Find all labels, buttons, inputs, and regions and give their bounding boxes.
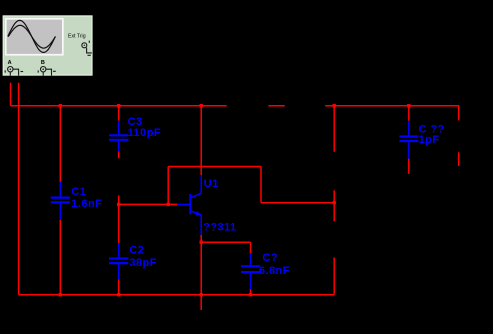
svg-text:110pF: 110pF [128,127,161,139]
svg-text:C3: C3 [128,116,143,128]
wire C1 branch lower [59,220,61,295]
node bottom rail / C2 [117,293,120,296]
wire C?? top stub [408,106,410,121]
wire bottom rail [19,294,335,296]
node top rail / collector feed [200,104,203,107]
wire emitter down with ground stub [200,235,202,310]
wire top rail segment 3 with right corner [325,106,459,121]
wire C2 bottom lead [118,279,120,294]
transistor U1 ??311 NPN [177,175,201,235]
svg-text:1pF: 1pF [419,134,440,146]
wire C1 branch upper [59,106,61,182]
wire C? top lead [250,242,252,253]
oscilloscope instrument XSC1 icon panel [3,16,92,75]
wire scope A- down to bottom rail [18,83,20,295]
capacitor C2 [109,243,128,279]
Ext Trig terminal [82,41,92,56]
connector A terminal [5,67,23,76]
wire collector feed from top rail [200,106,202,176]
wire right leg of box [260,167,262,203]
connector B terminal [38,67,56,76]
node bottom rail / C1 [59,293,62,296]
wire mid branch to C2 [118,195,120,243]
node top rail / C3 [117,104,120,107]
node bottom rail / C? [249,293,252,296]
capacitor C3 [109,121,128,151]
svg-text:6.8nF: 6.8nF [259,265,290,277]
node base / left leg [167,203,170,206]
svg-text:38pF: 38pF [129,257,156,269]
oscilloscope screen bezel [5,18,64,56]
wire base horizontal [119,203,178,205]
wire right riser segment c to bottom rail [333,257,335,294]
oscilloscope trace B (small sine) [8,25,55,48]
wire mid rail [168,166,261,168]
svg-text:A: A [8,60,12,66]
wire emitter to C? branch [201,241,250,243]
wire C3 top lead stub [118,106,120,121]
svg-text:B: B [41,60,45,66]
wire top rail segment 1 [11,105,227,107]
svg-text:1.6nF: 1.6nF [71,198,102,210]
wire C? bottom lead [250,289,252,295]
svg-text:C2: C2 [129,245,144,257]
node emitter / C? branch [200,241,203,244]
capacitor C?? [399,121,418,159]
svg-text:Ext Trig: Ext Trig [68,34,86,40]
wire top rail stub segment 2 [268,105,284,107]
svg-text:U1: U1 [204,178,219,190]
oscilloscope trace A (large sine) [8,20,56,52]
wire staircase horizontal [261,202,334,204]
node base / C2-C3 branch [117,203,120,206]
svg-text:??311: ??311 [203,221,236,233]
node top rail / right riser [333,104,336,107]
capacitor C1 [51,182,70,220]
capacitor C? [241,253,260,289]
node staircase / right riser [333,201,336,204]
wire C?? bottom stub [408,159,410,174]
wire right branch lower stub [458,152,460,166]
wire C3 bottom stub [118,151,120,158]
wire right riser segment b [333,190,335,221]
svg-text:C1: C1 [71,186,86,198]
wire left leg down to base [167,167,169,205]
node top rail / C1 [59,104,62,107]
node top rail / C?? [407,104,410,107]
wire right riser segment a [333,106,335,152]
wire scope A+ down to top rail [10,83,12,106]
svg-text:C?: C? [262,252,278,264]
node bottom rail / emitter [200,293,203,296]
